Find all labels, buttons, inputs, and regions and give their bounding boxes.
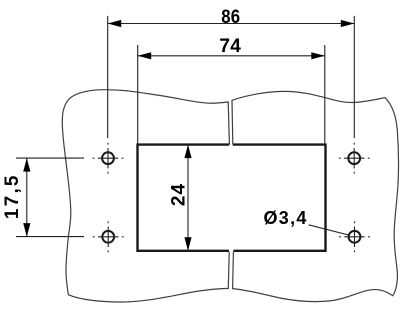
svg-text:74: 74 — [219, 36, 241, 57]
dimension 74: arrow left — [138, 52, 152, 59]
hole bottom-left — [102, 231, 114, 243]
dimension 17,5: dimension line — [26, 158, 28, 237]
centerlines hole bottom-left — [93, 221, 124, 252]
hole top-left — [102, 152, 114, 164]
centerlines hole top-right — [339, 143, 370, 174]
dimension 86: dimension line — [108, 23, 355, 25]
dimension 86: extension line left — [107, 16, 109, 138]
dimension 24: arrow top — [184, 145, 191, 159]
leader line from label to hole bottom-right — [309, 225, 348, 235]
svg-text:17,5: 17,5 — [2, 173, 23, 219]
dimension 74: extension line left — [137, 45, 139, 143]
dimension 24: dimension line — [187, 145, 189, 251]
centerlines hole bottom-right — [339, 221, 370, 252]
panel left piece outline (wavy broken edges) — [62, 90, 229, 302]
dimension 74: extension line right — [324, 45, 326, 143]
dimension 86: extension line right — [353, 16, 355, 138]
cutout rectangle left part — [138, 145, 230, 251]
panel right piece outline (wavy broken edges) — [232, 91, 399, 301]
svg-text:24: 24 — [169, 183, 190, 206]
hole top-right — [348, 152, 360, 164]
dimension 17,5: arrow bottom — [23, 223, 30, 237]
dimension 74: arrow right — [311, 52, 325, 59]
cutout rectangle right part — [233, 145, 326, 251]
dimension 86: arrow left — [108, 20, 122, 27]
dimension 17,5: extension line bottom — [16, 236, 84, 238]
svg-text:86: 86 — [221, 6, 240, 27]
dimension 74: dimension line — [138, 55, 325, 57]
dimension 17,5: arrow top — [23, 158, 30, 172]
dimension 24: arrow bottom — [184, 237, 191, 251]
hole bottom-right — [349, 231, 361, 243]
dimension 86: arrow right — [341, 20, 355, 27]
dimension 17,5: extension line top — [16, 157, 84, 159]
svg-text:Ø3,4: Ø3,4 — [264, 208, 308, 228]
centerlines hole top-left — [93, 143, 124, 174]
